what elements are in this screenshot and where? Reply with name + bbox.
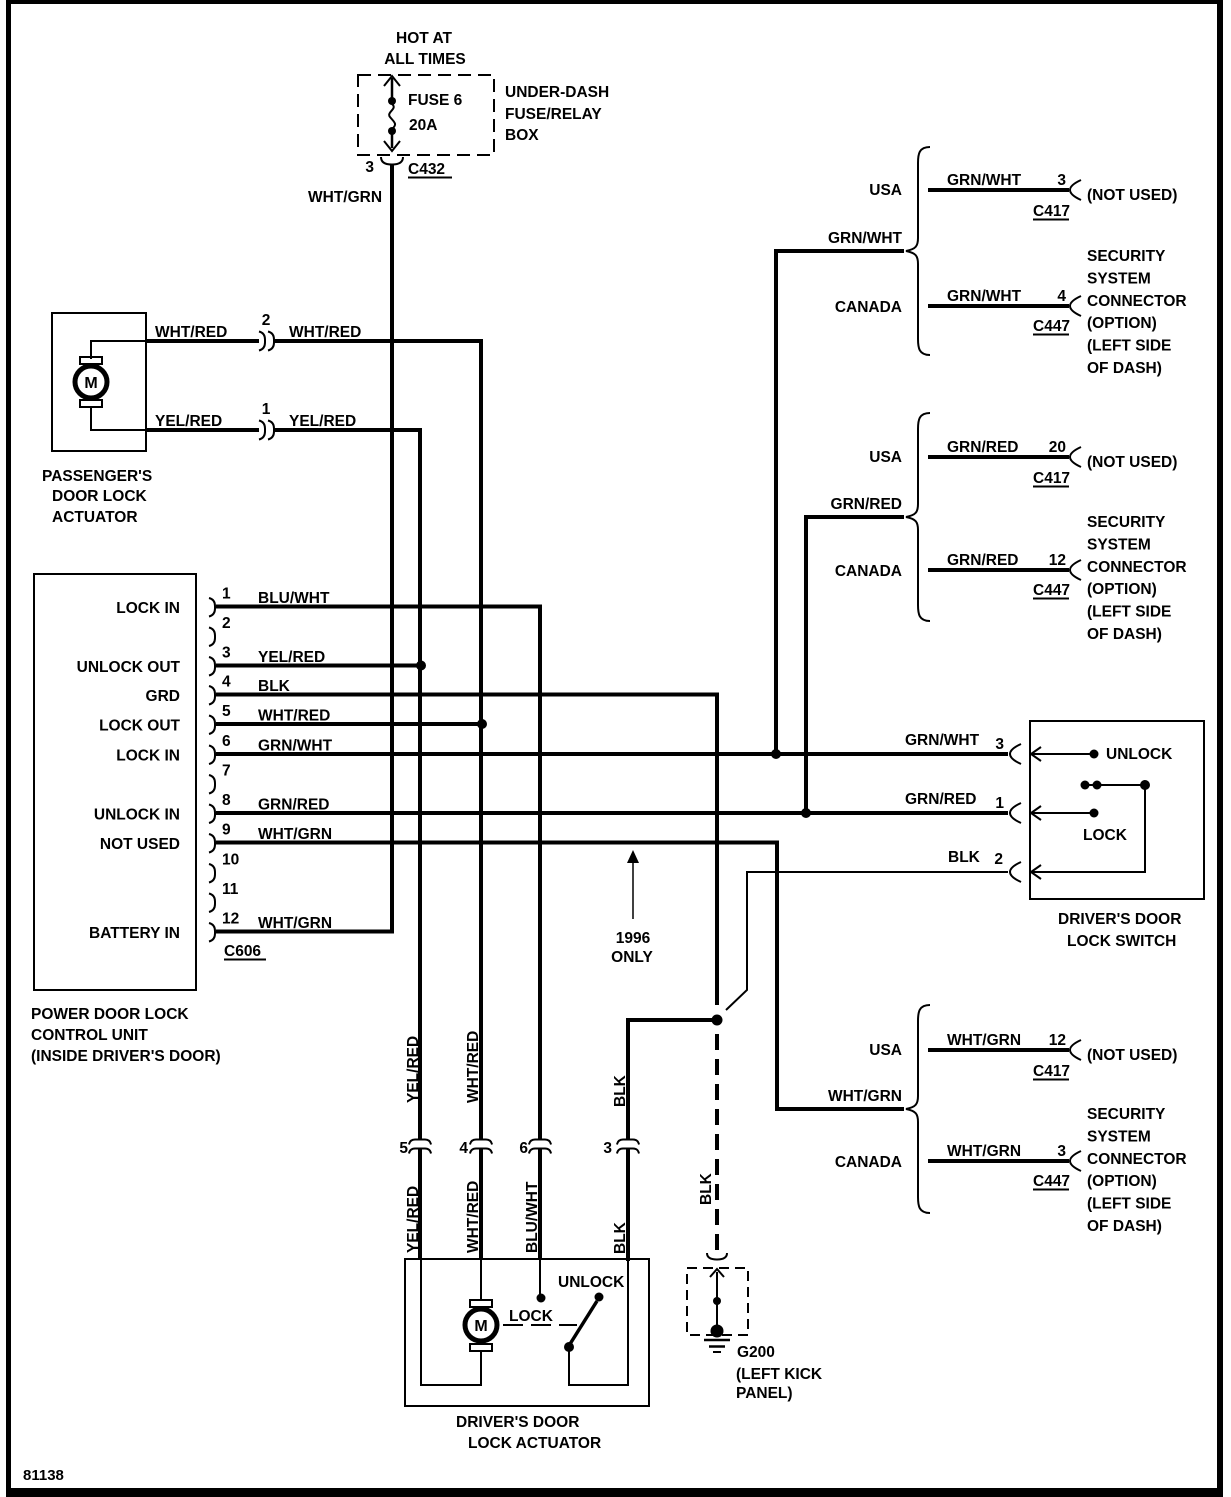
- svg-text:GRN/RED: GRN/RED: [947, 439, 1018, 456]
- svg-text:CONNECTOR: CONNECTOR: [1087, 1151, 1187, 1168]
- svg-text:BLK: BLK: [948, 849, 981, 866]
- svg-text:GRN/WHT: GRN/WHT: [828, 230, 903, 247]
- svg-text:1996: 1996: [616, 930, 651, 947]
- svg-text:2: 2: [262, 312, 271, 329]
- wire GRN/WHT riser to security connector section: [776, 251, 904, 754]
- svg-text:BOX: BOX: [505, 127, 539, 144]
- svg-text:(OPTION): (OPTION): [1087, 581, 1157, 598]
- svg-text:OF DASH): OF DASH): [1087, 1218, 1162, 1235]
- svg-text:USA: USA: [869, 449, 902, 466]
- control unit pin 1 bracket: [209, 598, 215, 617]
- svg-text:LOCK IN: LOCK IN: [116, 748, 180, 765]
- motor leads (passenger): [91, 341, 146, 359]
- label 1996 ONLY with arrow: [632, 861, 634, 919]
- svg-text:CANADA: CANADA: [835, 563, 902, 580]
- G200 dashed box: [687, 1268, 748, 1335]
- svg-text:POWER DOOR LOCK: POWER DOOR LOCK: [31, 1006, 189, 1023]
- svg-text:CANADA: CANADA: [835, 1154, 902, 1171]
- svg-text:12: 12: [222, 911, 239, 928]
- svg-text:UNLOCK: UNLOCK: [558, 1274, 625, 1291]
- control unit pin 8 bracket: [209, 805, 215, 824]
- wire GRN/RED USA to C417 pin 20: [928, 455, 1069, 459]
- junction node BLK: [712, 1015, 723, 1026]
- svg-text:BLK: BLK: [612, 1074, 629, 1107]
- svg-text:(NOT USED): (NOT USED): [1087, 1047, 1177, 1064]
- wire GRN/WHT pin 6 to door lock switch pin 3: [216, 752, 1008, 756]
- wire WHT/RED passenger pin 2 row: [146, 339, 259, 343]
- svg-text:WHT/GRN: WHT/GRN: [258, 826, 332, 843]
- svg-text:GRN/WHT: GRN/WHT: [258, 738, 333, 755]
- svg-text:(NOT USED): (NOT USED): [1087, 454, 1177, 471]
- junction dot GRN/RED: [801, 808, 811, 818]
- wire GRN/WHT USA to C417 pin 3: [928, 188, 1069, 192]
- control unit pin 7 bracket: [209, 775, 215, 794]
- svg-text:WHT/GRN: WHT/GRN: [947, 1032, 1021, 1049]
- connector bracket switch pin 1: [1010, 803, 1021, 823]
- driver's door lock switch box: [1030, 721, 1204, 899]
- wire GRN/RED pin 8 to door lock switch pin 1: [216, 811, 1008, 815]
- under-dash fuse/relay box (dashed): [358, 75, 494, 155]
- passenger's door lock actuator box: [52, 313, 146, 451]
- wire WHT/GRN pin 9 (1996 only) to security connector section: [216, 843, 904, 1110]
- svg-text:(LEFT SIDE: (LEFT SIDE: [1087, 338, 1171, 355]
- svg-text:YEL/RED: YEL/RED: [155, 413, 222, 430]
- svg-text:BLU/WHT: BLU/WHT: [524, 1181, 541, 1253]
- svg-text:SYSTEM: SYSTEM: [1087, 270, 1151, 287]
- svg-text:WHT/RED: WHT/RED: [465, 1181, 482, 1253]
- svg-text:GRN/RED: GRN/RED: [947, 552, 1018, 569]
- svg-text:LOCK OUT: LOCK OUT: [99, 718, 180, 735]
- wire YEL/RED passenger pin 1 row: [146, 428, 259, 432]
- connector bracket C447: [1070, 296, 1081, 316]
- svg-text:11: 11: [222, 881, 239, 898]
- lock/unlock switch (actuator): [537, 1294, 546, 1303]
- svg-text:C417: C417: [1033, 203, 1070, 220]
- junction dot GRN/WHT: [771, 749, 781, 759]
- control unit pin 9 bracket: [209, 834, 215, 853]
- svg-text:(OPTION): (OPTION): [1087, 315, 1157, 332]
- connector at G200: [707, 1253, 727, 1260]
- svg-text:9: 9: [222, 822, 231, 839]
- wire BLU/WHT pin 1 to actuator connector 6: [216, 607, 540, 1140]
- svg-text:UNDER-DASH: UNDER-DASH: [505, 84, 609, 101]
- svg-text:YEL/RED: YEL/RED: [289, 413, 356, 430]
- svg-text:(NOT USED): (NOT USED): [1087, 187, 1177, 204]
- control unit pin 4 bracket: [209, 686, 215, 705]
- svg-text:DRIVER'S DOOR: DRIVER'S DOOR: [456, 1414, 579, 1431]
- svg-text:G200: G200: [737, 1344, 775, 1361]
- ground G200 symbol: [710, 1269, 724, 1277]
- svg-text:SECURITY: SECURITY: [1087, 514, 1166, 531]
- svg-text:4: 4: [459, 1140, 468, 1157]
- svg-text:GRN/WHT: GRN/WHT: [947, 288, 1022, 305]
- svg-text:6: 6: [519, 1140, 528, 1157]
- svg-text:6: 6: [222, 733, 231, 750]
- svg-text:USA: USA: [869, 1042, 902, 1059]
- svg-text:SYSTEM: SYSTEM: [1087, 536, 1151, 553]
- wire GRN/WHT CANADA to C447 pin 4: [928, 304, 1069, 308]
- svg-text:SYSTEM: SYSTEM: [1087, 1128, 1151, 1145]
- svg-text:2: 2: [222, 615, 231, 632]
- svg-text:OF DASH): OF DASH): [1087, 626, 1162, 643]
- svg-text:M: M: [474, 1318, 487, 1335]
- svg-text:HOT AT: HOT AT: [396, 30, 452, 47]
- svg-text:81138: 81138: [23, 1467, 64, 1484]
- svg-text:FUSE/RELAY: FUSE/RELAY: [505, 106, 602, 123]
- svg-text:GRN/WHT: GRN/WHT: [947, 172, 1022, 189]
- wire BLK dashed to G200: [715, 1034, 719, 1250]
- connector bracket switch pin 3: [1010, 744, 1021, 764]
- svg-text:C432: C432: [408, 161, 445, 178]
- svg-text:OF DASH): OF DASH): [1087, 360, 1162, 377]
- brace GRN/WHT security section: [906, 147, 930, 355]
- inner wiring (actuator): [421, 1259, 481, 1385]
- svg-text:PANEL): PANEL): [736, 1385, 793, 1402]
- svg-text:SECURITY: SECURITY: [1087, 1106, 1166, 1123]
- svg-text:7: 7: [222, 763, 231, 780]
- svg-text:NOT USED: NOT USED: [100, 836, 180, 853]
- svg-text:WHT/RED: WHT/RED: [465, 1031, 482, 1103]
- svg-text:ONLY: ONLY: [611, 949, 653, 966]
- svg-text:WHT/RED: WHT/RED: [289, 324, 361, 341]
- connector bracket C417: [1070, 1040, 1081, 1060]
- svg-text:BLK: BLK: [258, 678, 291, 695]
- wire BLK 1996-only link to switch pin 2: [726, 872, 1008, 1010]
- inline connector 2 (WHT/RED): [259, 332, 265, 351]
- svg-text:C447: C447: [1033, 582, 1070, 599]
- svg-text:CONTROL UNIT: CONTROL UNIT: [31, 1027, 148, 1044]
- svg-text:BLK: BLK: [612, 1221, 629, 1254]
- svg-text:(OPTION): (OPTION): [1087, 1173, 1157, 1190]
- control unit pin 3 bracket: [209, 657, 215, 676]
- svg-text:(LEFT KICK: (LEFT KICK: [736, 1366, 823, 1383]
- svg-text:10: 10: [222, 852, 239, 869]
- svg-text:5: 5: [222, 703, 231, 720]
- svg-text:WHT/GRN: WHT/GRN: [258, 915, 332, 932]
- svg-text:12: 12: [1049, 552, 1066, 569]
- svg-text:4: 4: [1057, 288, 1066, 305]
- svg-text:C417: C417: [1033, 1063, 1070, 1080]
- svg-text:SECURITY: SECURITY: [1087, 248, 1166, 265]
- svg-text:ALL TIMES: ALL TIMES: [384, 51, 466, 68]
- svg-text:FUSE 6: FUSE 6: [408, 92, 463, 109]
- junction dot WHT/RED: [477, 719, 487, 729]
- svg-text:WHT/RED: WHT/RED: [155, 324, 227, 341]
- wire WHT/RED pin 5 row: [216, 722, 482, 726]
- wire YEL/RED pin 3 row: [216, 664, 421, 668]
- control unit pin 11 bracket: [209, 894, 215, 913]
- driver's door lock actuator box: [405, 1259, 649, 1406]
- svg-text:LOCK IN: LOCK IN: [116, 600, 180, 617]
- svg-text:5: 5: [399, 1140, 408, 1157]
- svg-text:BLU/WHT: BLU/WHT: [258, 590, 330, 607]
- power door lock control unit box: [34, 574, 196, 990]
- switch internals: [1031, 747, 1041, 761]
- connector C432 pin 3: [381, 157, 403, 165]
- brace WHT/GRN security section: [906, 1005, 930, 1213]
- svg-text:GRN/RED: GRN/RED: [905, 791, 976, 808]
- control unit pin 12 bracket: [209, 923, 215, 942]
- svg-text:BATTERY IN: BATTERY IN: [89, 925, 180, 942]
- svg-text:8: 8: [222, 792, 231, 809]
- fuse F6 20A element: [384, 76, 400, 86]
- control unit pin 5 bracket: [209, 716, 215, 735]
- brace GRN/RED security section: [906, 413, 930, 621]
- svg-text:DRIVER'S DOOR: DRIVER'S DOOR: [1058, 911, 1181, 928]
- svg-text:(LEFT SIDE: (LEFT SIDE: [1087, 604, 1171, 621]
- wire WHT/GRN USA to C417 pin 12: [928, 1048, 1069, 1052]
- svg-text:4: 4: [222, 674, 231, 691]
- svg-text:(LEFT SIDE: (LEFT SIDE: [1087, 1196, 1171, 1213]
- motor M (passenger): [80, 357, 102, 364]
- svg-text:1: 1: [995, 795, 1004, 812]
- connector bracket C417: [1070, 447, 1081, 467]
- inline connector 4: [470, 1140, 492, 1145]
- svg-text:CONNECTOR: CONNECTOR: [1087, 559, 1187, 576]
- svg-text:GRN/RED: GRN/RED: [258, 797, 329, 814]
- svg-text:UNLOCK OUT: UNLOCK OUT: [77, 659, 181, 676]
- inline connector 6: [529, 1140, 551, 1145]
- svg-text:YEL/RED: YEL/RED: [405, 1186, 422, 1253]
- svg-text:CANADA: CANADA: [835, 299, 902, 316]
- wire GRN/RED CANADA to C447 pin 12: [928, 568, 1069, 572]
- svg-text:WHT/GRN: WHT/GRN: [308, 189, 382, 206]
- svg-text:WHT/GRN: WHT/GRN: [828, 1088, 902, 1105]
- svg-text:GRN/RED: GRN/RED: [831, 496, 902, 513]
- svg-text:USA: USA: [869, 182, 902, 199]
- svg-text:3: 3: [1057, 172, 1066, 189]
- svg-text:YEL/RED: YEL/RED: [258, 649, 325, 666]
- svg-text:3: 3: [603, 1140, 612, 1157]
- connector bracket C417: [1070, 180, 1081, 200]
- svg-text:PASSENGER'S: PASSENGER'S: [42, 468, 152, 485]
- svg-text:WHT/GRN: WHT/GRN: [947, 1143, 1021, 1160]
- wire GRN/RED riser to security connector section: [806, 517, 904, 813]
- svg-text:2: 2: [994, 851, 1003, 868]
- svg-text:GRN/WHT: GRN/WHT: [905, 732, 980, 749]
- svg-text:DOOR LOCK: DOOR LOCK: [52, 488, 148, 505]
- svg-text:20: 20: [1049, 439, 1066, 456]
- control unit pin 2 bracket: [209, 628, 215, 647]
- svg-text:(INSIDE DRIVER'S DOOR): (INSIDE DRIVER'S DOOR): [31, 1048, 221, 1065]
- svg-text:ACTUATOR: ACTUATOR: [52, 509, 138, 526]
- svg-text:3: 3: [222, 645, 231, 662]
- svg-text:1: 1: [222, 586, 231, 603]
- svg-text:LOCK: LOCK: [1083, 827, 1128, 844]
- svg-text:YEL/RED: YEL/RED: [405, 1036, 422, 1103]
- svg-text:C447: C447: [1033, 1173, 1070, 1190]
- junction dot YEL/RED: [416, 661, 426, 671]
- connector bracket C447: [1070, 1151, 1081, 1171]
- connector bracket C447: [1070, 560, 1081, 580]
- connector bracket switch pin 2: [1010, 862, 1021, 882]
- svg-text:3: 3: [365, 159, 374, 176]
- svg-text:BLK: BLK: [698, 1172, 715, 1205]
- wire BLK junction to actuator connector 3: [628, 1020, 717, 1139]
- svg-text:CONNECTOR: CONNECTOR: [1087, 293, 1187, 310]
- svg-text:UNLOCK IN: UNLOCK IN: [94, 807, 180, 824]
- inline connector 3: [617, 1140, 639, 1145]
- svg-text:GRD: GRD: [146, 688, 180, 705]
- inline connector 1 (YEL/RED): [259, 421, 265, 440]
- svg-text:M: M: [84, 375, 97, 392]
- control unit pin 6 bracket: [209, 746, 215, 765]
- svg-text:WHT/RED: WHT/RED: [258, 708, 330, 725]
- control unit pin 10 bracket: [209, 864, 215, 883]
- svg-text:UNLOCK: UNLOCK: [1106, 746, 1173, 763]
- svg-text:12: 12: [1049, 1032, 1066, 1049]
- wire WHT/GRN CANADA to C447 pin 3: [928, 1159, 1069, 1163]
- wire WHT/GRN from C432 to control unit pin 12: [216, 165, 392, 932]
- svg-text:LOCK ACTUATOR: LOCK ACTUATOR: [468, 1435, 601, 1452]
- svg-text:LOCK SWITCH: LOCK SWITCH: [1067, 933, 1176, 950]
- wire BLK pin 4 (GRD) to junction: [216, 695, 717, 1006]
- svg-text:C606: C606: [224, 943, 261, 960]
- svg-text:1: 1: [262, 401, 271, 418]
- svg-text:3: 3: [995, 736, 1004, 753]
- inline connector 5: [409, 1140, 431, 1145]
- svg-text:20A: 20A: [409, 117, 437, 134]
- svg-text:C447: C447: [1033, 318, 1070, 335]
- svg-text:3: 3: [1057, 1143, 1066, 1160]
- svg-text:LOCK: LOCK: [509, 1308, 554, 1325]
- svg-text:C417: C417: [1033, 470, 1070, 487]
- motor M (driver actuator): [470, 1300, 492, 1307]
